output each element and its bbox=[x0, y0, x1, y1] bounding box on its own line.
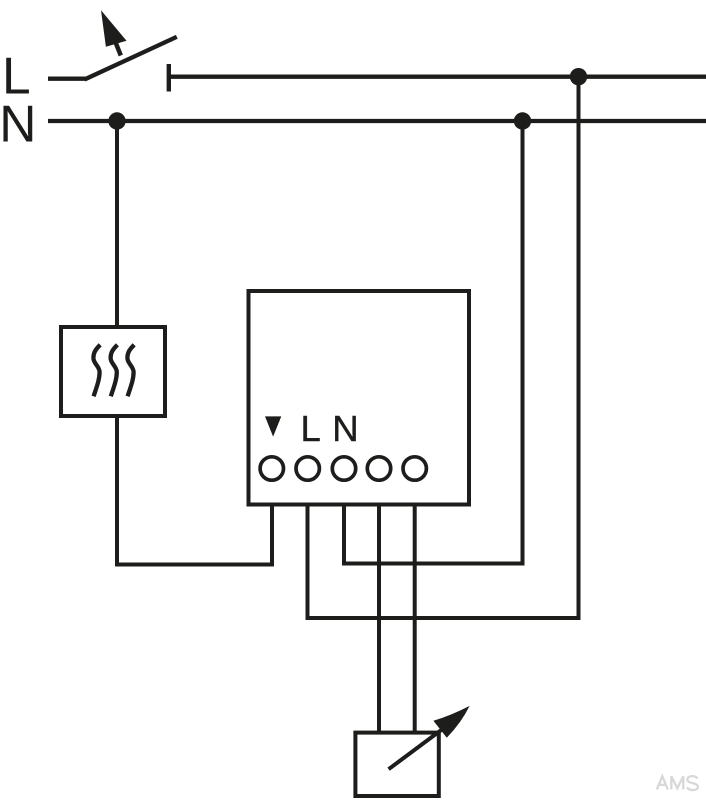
wire terminal 5 to actuator bbox=[413, 507, 417, 733]
thermostat U1 box bbox=[249, 291, 470, 505]
actuator B1 adjustment arrow shaft bbox=[389, 724, 450, 770]
thermostat U1 terminal 1 circle bbox=[260, 457, 283, 480]
switch S1 fixed contact tick bbox=[167, 64, 171, 92]
thermostat U1 terminal 2 circle bbox=[296, 457, 319, 480]
wire from N junction down to heater E1 bbox=[115, 121, 119, 327]
wire heater E1 to thermostat terminal 1 bbox=[117, 416, 272, 565]
thermostat U1 terminal 5 circle bbox=[403, 457, 426, 480]
switch S1 actuation arrow head bbox=[101, 10, 127, 47]
wire L stub from label to switch S1 bbox=[48, 77, 86, 81]
wire terminal 4 to actuator bbox=[377, 507, 381, 733]
svg-text:N: N bbox=[332, 408, 358, 449]
heater E1 heat wave 3 bbox=[127, 345, 134, 397]
wire N line to right edge bbox=[48, 119, 706, 123]
switch S1 blade bbox=[85, 37, 177, 80]
heater E1 heat wave 2 bbox=[111, 345, 118, 397]
svg-text:L: L bbox=[301, 408, 321, 449]
actuator B1 adjustment arrow head bbox=[433, 706, 469, 738]
wire terminal 3 to N bbox=[344, 121, 523, 564]
node junction dot L-right bbox=[570, 68, 587, 85]
thermostat U1 terminal 3 circle bbox=[332, 457, 355, 480]
thermostat U1 load-output triangle mark bbox=[265, 416, 281, 436]
watermark AMS bbox=[657, 776, 698, 790]
wire L line to right edge bbox=[169, 74, 706, 78]
heater E1 box bbox=[61, 327, 165, 416]
node junction dot N-right bbox=[514, 112, 531, 129]
actuator B1 box bbox=[355, 733, 438, 796]
svg-text:N: N bbox=[0, 94, 36, 152]
thermostat U1 terminal 4 circle bbox=[367, 457, 390, 480]
heater E1 heat wave 1 bbox=[93, 345, 100, 397]
node junction dot N-left bbox=[108, 112, 125, 129]
switch S1 actuation arrow tail bbox=[115, 42, 121, 56]
wire terminal 2 to switched L bbox=[308, 77, 579, 618]
